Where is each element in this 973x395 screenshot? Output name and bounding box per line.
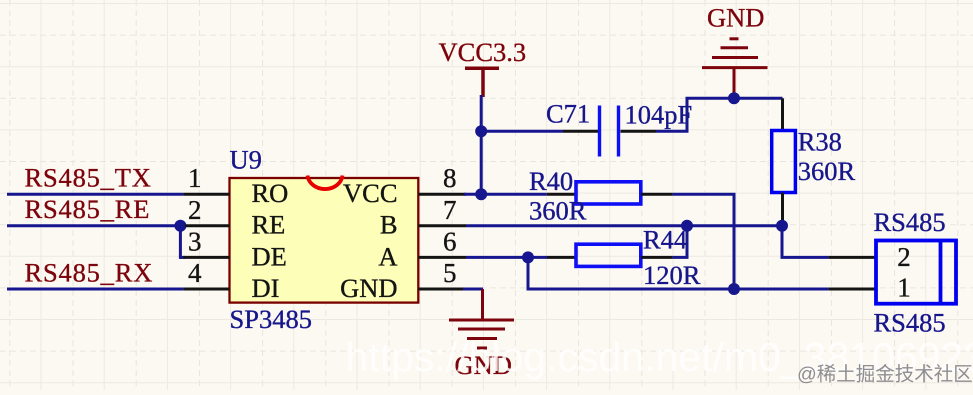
svg-text:GND: GND bbox=[340, 273, 397, 303]
svg-text:SP3485: SP3485 bbox=[230, 304, 312, 334]
pin 8 VCC bbox=[418, 193, 466, 196]
ground symbol GND top bbox=[702, 39, 768, 99]
wire R44 right up to B row bbox=[673, 226, 687, 258]
wire R40 right down to A row bbox=[673, 194, 734, 289]
svg-text:RO: RO bbox=[252, 178, 289, 208]
svg-text:1: 1 bbox=[897, 273, 911, 303]
wire net RS485_RX row bbox=[7, 288, 183, 291]
power symbol VCC3.3 bbox=[465, 68, 499, 97]
junction on RE net bbox=[174, 220, 186, 232]
svg-text:3: 3 bbox=[188, 226, 202, 256]
junction VCC/C71 bbox=[475, 125, 487, 137]
pin 4 DI bbox=[183, 288, 229, 291]
resistor R44 bbox=[547, 244, 673, 266]
svg-text:RE: RE bbox=[252, 210, 286, 240]
svg-text:B: B bbox=[380, 210, 398, 240]
svg-text:2: 2 bbox=[188, 195, 202, 225]
pin 5 GND bbox=[418, 288, 463, 291]
resistor R38 bbox=[772, 98, 796, 226]
svg-text:@稀土掘金技术社区: @稀土掘金技术社区 bbox=[797, 364, 973, 386]
wire net RS485_RE row bbox=[7, 224, 185, 259]
svg-text:VCC: VCC bbox=[343, 178, 398, 208]
wire C71 right up to GND row bbox=[656, 98, 783, 131]
svg-text:R44: R44 bbox=[643, 225, 687, 255]
pin 7 B bbox=[418, 224, 466, 227]
junction B/R44 bbox=[681, 220, 693, 232]
wire pin8 to R40 bbox=[464, 193, 547, 196]
resistor R40 bbox=[547, 182, 673, 204]
svg-text:8: 8 bbox=[443, 163, 457, 193]
junction GND/C71/R38 bbox=[728, 92, 740, 104]
svg-text:360R: 360R bbox=[798, 156, 856, 186]
svg-text:R40: R40 bbox=[529, 166, 573, 196]
svg-text:RS485_TX: RS485_TX bbox=[25, 163, 152, 193]
svg-text:2: 2 bbox=[897, 242, 911, 272]
wire C71 left bbox=[481, 130, 563, 133]
svg-text:DI: DI bbox=[252, 273, 280, 303]
wire net B row bbox=[466, 224, 782, 227]
svg-text:RS485: RS485 bbox=[874, 308, 946, 338]
svg-text:RS485_RX: RS485_RX bbox=[25, 257, 154, 287]
wire net A row bbox=[466, 257, 828, 289]
svg-text:1: 1 bbox=[188, 163, 202, 193]
svg-text:RS485: RS485 bbox=[874, 207, 946, 237]
junction B/R38 bbox=[776, 220, 788, 232]
wire pin5 to ground bbox=[463, 288, 483, 291]
svg-text:360R: 360R bbox=[529, 196, 587, 226]
svg-text:5: 5 bbox=[443, 258, 457, 288]
svg-text:GND: GND bbox=[707, 3, 764, 33]
svg-text:DE: DE bbox=[252, 241, 287, 271]
connector RS485 bbox=[828, 241, 956, 304]
junction VCC/pin8/R40 bbox=[475, 188, 487, 200]
svg-text:4: 4 bbox=[188, 258, 202, 288]
svg-text:104pF: 104pF bbox=[625, 100, 693, 130]
IC U9 body bbox=[230, 178, 419, 303]
pin 2 RE bbox=[185, 224, 230, 227]
pin 3 DE bbox=[183, 256, 229, 259]
svg-text:6: 6 bbox=[443, 226, 457, 256]
svg-text:120R: 120R bbox=[643, 260, 701, 290]
junction A/R40 bbox=[728, 283, 740, 295]
svg-text:VCC3.3: VCC3.3 bbox=[439, 37, 527, 67]
svg-text:R38: R38 bbox=[798, 127, 842, 157]
junction A/R44 left bbox=[522, 251, 534, 263]
pin 1 RO bbox=[183, 193, 229, 196]
svg-text:C71: C71 bbox=[546, 98, 590, 128]
ground symbol GND bottom bbox=[449, 289, 514, 348]
pin 6 A bbox=[418, 256, 466, 259]
red arc marker on U9 bbox=[308, 176, 343, 190]
svg-text:RS485_RE: RS485_RE bbox=[25, 194, 151, 224]
capacitor C71 bbox=[563, 106, 656, 157]
wire B to connector pin2 bbox=[782, 224, 828, 257]
svg-text:7: 7 bbox=[443, 195, 457, 225]
svg-text:U9: U9 bbox=[230, 145, 262, 175]
wire VCC vertical bbox=[480, 95, 483, 194]
wire net RS485_TX row bbox=[7, 193, 183, 196]
svg-text:A: A bbox=[378, 241, 397, 271]
